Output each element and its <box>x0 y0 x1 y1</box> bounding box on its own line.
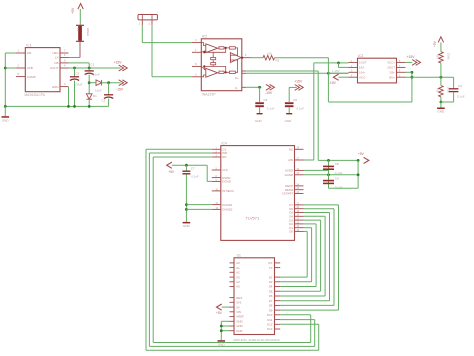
pin RG (IC2 pin 1) <box>192 51 201 53</box>
pin D4 (U1) <box>275 286 281 288</box>
pin GND (U1) <box>230 320 235 322</box>
wire D1 anode <box>89 82 96 84</box>
wire U+ to +5V drop <box>246 70 318 72</box>
pin TX (U1) <box>275 267 281 269</box>
connector X1 (input) <box>138 15 157 20</box>
svg-text:VCC-: VCC- <box>359 75 366 79</box>
junction C6 top <box>258 86 261 89</box>
svg-text:GND: GND <box>437 110 445 114</box>
wire X1-1 to INA +IN <box>142 42 192 44</box>
pin D13 (U1) <box>275 328 281 330</box>
junction C1 top <box>88 67 91 70</box>
svg-text:R3: R3 <box>276 59 280 63</box>
svg-text:AREF: AREF <box>236 315 244 319</box>
junction AGND right <box>357 173 360 176</box>
wire +5V drop from IC2 U+ <box>317 71 319 160</box>
wire C4 to gnd node <box>441 101 454 103</box>
pin UOUT (IC1 pin 4) <box>60 67 69 69</box>
svg-text:GND: GND <box>52 85 60 89</box>
svg-text:C7: C7 <box>191 166 195 170</box>
wire RD vertical <box>152 157 154 343</box>
svg-text:INA129P: INA129P <box>202 93 216 97</box>
svg-text:100k: 100k <box>447 53 451 60</box>
svg-text:LX: LX <box>55 56 59 60</box>
pin VCC- (IC3) <box>349 76 358 78</box>
svg-text:D8: D8 <box>269 304 273 308</box>
svg-text:1IN+: 1IN+ <box>359 71 365 75</box>
wire CS <box>146 148 212 150</box>
svg-text:0.1uF: 0.1uF <box>335 186 343 190</box>
wire +5V to R1 <box>440 42 442 51</box>
ground GND (Arduino) <box>218 340 226 342</box>
pin VCC+ (IC3) <box>397 61 406 63</box>
wire D2 horizontal <box>304 223 317 225</box>
pin D6 (U1) <box>275 295 281 297</box>
wire node A bottom run <box>328 101 412 103</box>
wire D6 horizontal <box>304 208 335 210</box>
pin D10 (U1) <box>275 314 281 316</box>
pin AVDD (IC4) <box>295 169 304 171</box>
pin D11 (U1) <box>275 319 281 321</box>
wire RD <box>153 156 212 158</box>
op-amp IC2 input buffer A <box>206 44 218 53</box>
pin 2IN+ (IC3) <box>397 76 406 78</box>
svg-text:IC2: IC2 <box>202 35 207 39</box>
svg-text:C3: C3 <box>76 72 80 76</box>
wire C1 top lead <box>88 68 90 71</box>
svg-text:+5V: +5V <box>358 152 365 156</box>
wire mid to R2 <box>440 77 442 85</box>
supply -15V arrow (IC3 VCC-) <box>333 74 338 80</box>
pin CS (IC4) <box>212 148 221 150</box>
wire WR <box>149 152 211 154</box>
wire L1 to LX <box>79 42 81 58</box>
wire D4 to Arduino <box>280 295 325 297</box>
svg-text:LBO: LBO <box>52 51 59 55</box>
wire +5V line at ADC <box>318 159 358 161</box>
pin NC (IC4) <box>295 148 304 150</box>
wire control bus vert x=318.7 <box>318 324 320 350</box>
wire GND1 <box>221 320 229 322</box>
svg-text:A4: A4 <box>236 280 240 284</box>
junction node A / divider line <box>411 76 414 79</box>
junction 2IN- <box>411 71 414 74</box>
wire C7 bottom to GND <box>185 174 187 222</box>
wire D1 vertical <box>311 228 313 282</box>
svg-text:D4: D4 <box>269 285 273 289</box>
svg-text:D9: D9 <box>269 308 273 312</box>
svg-text:+15V: +15V <box>294 79 303 83</box>
capacitor C2 <box>104 94 113 96</box>
wire control bus bottom y=350.3 <box>146 349 319 351</box>
wire control bus vert x=310.7 <box>310 315 312 343</box>
svg-text:DGND1: DGND1 <box>222 203 233 207</box>
svg-text:D1: D1 <box>93 94 97 98</box>
wire C2 bottom lead <box>108 99 110 107</box>
pin GND (U1) <box>230 325 235 327</box>
wire GND vertical <box>220 321 222 340</box>
wire D6 vertical <box>333 209 335 306</box>
capacitor C7 0.1uF <box>182 170 190 172</box>
svg-text:TX: TX <box>269 266 273 270</box>
svg-text:A1: A1 <box>236 266 240 270</box>
pin UFB (IC1 pin 2) <box>16 67 25 69</box>
svg-text:C8: C8 <box>335 162 339 166</box>
pin WR (IC4) <box>212 152 221 154</box>
wire 1IN- feedback <box>339 66 349 68</box>
svg-text:IC3: IC3 <box>358 54 363 58</box>
wire D2 to Arduino <box>280 286 316 288</box>
pin D7 (IC4) <box>295 204 304 206</box>
wire OUT to R3 <box>251 57 264 59</box>
inductor L1 <box>76 24 84 26</box>
svg-text:CLK: CLK <box>222 168 228 172</box>
pin CLK (IC4) <box>212 169 221 171</box>
wire C5 to GND <box>288 107 290 113</box>
pin D3 (IC4) <box>295 219 304 221</box>
wire node A vertical <box>327 58 329 102</box>
supply -15V arrow (at IC2) <box>270 84 275 90</box>
pin DGND (IC4) <box>212 180 221 182</box>
pin D0 (IC4) <box>295 230 304 232</box>
wire C6 to GND <box>259 107 261 113</box>
wire +5V drop to DVDD <box>206 165 208 181</box>
wire D7 to Arduino <box>280 309 338 311</box>
capacitor C1 <box>85 70 94 72</box>
svg-text:+5V: +5V <box>433 40 437 47</box>
svg-text:A0: A0 <box>236 261 240 265</box>
pin INT/EOC (IC4) <box>212 190 221 192</box>
wire R1 to mid <box>440 63 442 77</box>
supply +15V arrow (IC3) <box>416 60 421 66</box>
resistor IC2 internal R (bottom feedback) <box>219 71 224 73</box>
junction GND3 <box>220 329 223 332</box>
junction LBI/UFB <box>4 67 7 70</box>
wire D5 to Arduino <box>280 300 329 302</box>
svg-text:1IN-: 1IN- <box>359 66 364 70</box>
pin AREF (U1) <box>230 316 235 318</box>
svg-text:1OUT: 1OUT <box>359 61 367 65</box>
pin DGND2 (IC4) <box>212 208 221 210</box>
supply +5V arrow (ADC) <box>167 162 172 168</box>
pin A1 (U1) <box>230 267 235 269</box>
junction C3 top <box>73 67 76 70</box>
pin D5 (IC4) <box>295 212 304 214</box>
wire +5V line <box>172 164 207 166</box>
pin D2 (IC4) <box>295 223 304 225</box>
junction divider mid <box>440 76 443 79</box>
supply -15V arrow <box>122 80 127 86</box>
svg-text:2OUT: 2OUT <box>387 66 395 70</box>
pin CB (IC1 pin 5) <box>60 62 69 64</box>
pin D7 (U1) <box>275 300 281 302</box>
svg-text:A5: A5 <box>236 285 240 289</box>
junction C8 top <box>327 159 330 162</box>
pin OUT (IC2 pin 6) <box>242 57 251 59</box>
pin 3V3 (U1) <box>230 301 235 303</box>
ground GND (power section) <box>2 116 10 118</box>
svg-text:+5V: +5V <box>216 311 223 315</box>
pin RES (U1) <box>230 297 235 299</box>
svg-text:D6: D6 <box>269 294 273 298</box>
svg-text:AVDD: AVDD <box>285 169 293 173</box>
ground GND (C6) <box>257 113 263 114</box>
pin 5V (U1) <box>230 306 235 308</box>
junction node A at REF line <box>327 72 330 75</box>
pin LBO (IC1 pin 7) <box>60 52 69 54</box>
wire D0 vertical <box>306 231 308 277</box>
wire VCC+ to +15V <box>406 61 413 63</box>
IC IC4 TLV571 ADC <box>221 146 295 241</box>
wire cap chain vertical <box>328 160 330 188</box>
pin D12 (U1) <box>275 323 281 325</box>
svg-text:IC1: IC1 <box>26 44 31 48</box>
capacitor C4 <box>449 88 459 90</box>
pin 1OUT (IC3) <box>349 61 358 63</box>
junction DGND2 <box>185 208 188 211</box>
wire D2 to rail <box>88 99 90 106</box>
svg-text:IC4: IC4 <box>222 141 227 145</box>
svg-text:100k: 100k <box>447 87 451 94</box>
wire GND2 <box>221 325 229 327</box>
IC IC1 MAX636 <box>25 48 60 92</box>
svg-text:CSTART: CSTART <box>282 192 294 196</box>
ground GND (divider) <box>437 108 445 110</box>
svg-text:D5: D5 <box>269 289 273 293</box>
pin D1 (IC4) <box>295 227 304 229</box>
resistor R3 10k <box>263 55 275 60</box>
wire D6 to Arduino <box>280 304 334 306</box>
svg-text:D3: D3 <box>269 280 273 284</box>
wire AGND <box>304 174 359 176</box>
pin RD (IC4) <box>212 156 221 158</box>
wire R3 to node A <box>275 57 329 59</box>
svg-text:D12: D12 <box>267 323 273 327</box>
wire X1-1 down <box>141 25 143 42</box>
pin AGND (IC4) <box>295 174 304 176</box>
junction feedback 1OUT <box>337 62 340 65</box>
svg-text:U1: U1 <box>237 254 241 258</box>
svg-text:RX: RX <box>268 261 272 265</box>
svg-text:10uF: 10uF <box>93 73 100 77</box>
wire D3 vertical <box>320 220 322 291</box>
pin 2IN- (IC3) <box>397 71 406 73</box>
wire D5 horizontal <box>304 212 330 214</box>
svg-text:CB: CB <box>54 61 58 65</box>
wire VCC- stub <box>339 76 349 78</box>
resistor R2 100k <box>439 86 444 97</box>
pin LX (IC1 pin 6) <box>60 57 69 59</box>
pin D4 (IC4) <box>295 215 304 217</box>
supply +5V arrow (Arduino) <box>217 304 222 310</box>
supply +5V arrow (top left) <box>78 4 83 10</box>
pin CSTART (IC4) <box>295 193 304 195</box>
capacitor C9 0.1uF <box>323 180 334 182</box>
pin A2 (U1) <box>230 271 235 273</box>
pin 2OUT (IC3) <box>397 66 406 68</box>
wire to +15V arrow <box>289 86 297 88</box>
svg-text:10k: 10k <box>267 52 272 56</box>
junction R2/C4 bottom <box>440 101 443 104</box>
wire 2IN- to node A <box>406 71 412 73</box>
wire X1-2 to INA -IN <box>152 76 192 78</box>
junction right cap rail <box>357 159 360 162</box>
junction C8/C9 mid <box>327 173 330 176</box>
wire C5 top lead <box>288 87 290 102</box>
svg-text:100uH: 100uH <box>86 28 90 37</box>
supply +5V arrow (divider) <box>438 37 443 43</box>
wire R2 to gnd node <box>440 97 442 102</box>
svg-text:2IN+: 2IN+ <box>389 75 395 79</box>
svg-text:C6: C6 <box>264 98 268 102</box>
svg-text:R2: R2 <box>436 89 440 93</box>
wire REF to node A / 1IN+ <box>246 72 348 74</box>
pin REFP (IC4) <box>295 185 304 187</box>
svg-text:TLV571: TLV571 <box>246 215 260 220</box>
wire D2 vertical <box>315 224 317 287</box>
svg-text:DGND: DGND <box>222 180 231 184</box>
svg-text:UOUT: UOUT <box>50 66 59 70</box>
wire U- to -15V <box>246 86 261 88</box>
svg-text:DGND2: DGND2 <box>222 208 233 212</box>
svg-text:VIN: VIN <box>236 310 241 314</box>
pin D3 (U1) <box>275 281 281 283</box>
wire to GND <box>440 102 442 108</box>
svg-text:GND: GND <box>236 329 242 333</box>
wire D0 to Arduino <box>280 276 307 278</box>
svg-text:GND: GND <box>183 224 191 228</box>
pin AIN (IC4) <box>295 159 304 161</box>
wire +5V to L1 <box>79 9 81 25</box>
pin U- (IC2 pin 4) <box>242 86 247 88</box>
junction C7 top <box>185 164 188 167</box>
wire AVDD <box>304 169 329 171</box>
wire IC1 GND down <box>68 87 70 107</box>
wire control bus vert x=314.7 <box>314 320 316 347</box>
svg-text:10uF: 10uF <box>95 89 102 93</box>
svg-text:D0: D0 <box>289 230 293 234</box>
pin RG (IC2 pin 8) <box>192 65 201 67</box>
pin D2 (U1) <box>275 276 281 278</box>
resistor R1 100k <box>439 52 444 63</box>
wire D0 horizontal <box>304 230 308 232</box>
wire control bus bottom y=342.5 <box>153 342 311 344</box>
svg-text:U+: U+ <box>235 76 239 80</box>
wire cap rail right <box>357 160 359 188</box>
svg-text:A3: A3 <box>236 275 240 279</box>
pin 1IN- (IC3) <box>349 66 358 68</box>
wire D7 horizontal <box>304 204 339 206</box>
pin GND (U1) <box>230 330 235 332</box>
svg-text:C2: C2 <box>102 99 106 103</box>
wire LBI left <box>5 52 16 54</box>
wire IC2 internal <box>201 43 237 77</box>
svg-text:INT/EOC: INT/EOC <box>222 189 234 193</box>
wire C3 top lead <box>74 68 76 77</box>
wire UOUT to +15V <box>69 67 121 69</box>
junction D1 anode <box>88 81 91 84</box>
wire D7 vertical <box>338 205 340 310</box>
pin COMP (IC1 pin 8) <box>16 76 25 78</box>
wire node B (1OUT) <box>314 62 349 64</box>
svg-text:UFB: UFB <box>27 66 33 70</box>
svg-text:0.1uF: 0.1uF <box>267 106 275 110</box>
svg-text:NC: NC <box>289 148 293 152</box>
pin A3 (U1) <box>230 276 235 278</box>
svg-text:D2: D2 <box>269 275 273 279</box>
svg-text:D13: D13 <box>267 327 273 331</box>
pin A5 (U1) <box>230 286 235 288</box>
junction GND2 <box>220 325 223 328</box>
resistor IC2 internal R (top feedback) <box>219 47 224 49</box>
svg-text:GND: GND <box>285 119 293 123</box>
wire WR vertical <box>148 153 150 346</box>
wire C4 top lead <box>453 77 455 88</box>
wire left rail vertical <box>4 53 6 106</box>
wire C4 bottom lead <box>453 92 455 102</box>
junction DGND1 <box>185 203 188 206</box>
svg-text:R1: R1 <box>436 55 440 59</box>
svg-text:+5V: +5V <box>168 170 175 174</box>
junction D2 bottom <box>88 105 91 108</box>
svg-text:RES: RES <box>236 296 242 300</box>
capacitor C5 0.1uF <box>285 102 294 104</box>
svg-text:-15V: -15V <box>116 88 124 92</box>
pin D8 (U1) <box>275 304 281 306</box>
wire control bus row y=319.6 <box>280 319 315 321</box>
IC IC2 INA129 <box>201 39 242 91</box>
wire D1 to Arduino <box>280 281 311 283</box>
svg-text:+15V: +15V <box>114 60 123 64</box>
junction C2 top <box>107 81 110 84</box>
svg-text:0.1uF: 0.1uF <box>191 174 199 178</box>
svg-text:C5: C5 <box>293 98 297 102</box>
ground GND (ADC) <box>183 222 191 224</box>
wire X1-2 down <box>151 25 153 77</box>
wire D1 cathode to -15V <box>102 82 121 84</box>
wire C6 top lead <box>259 87 261 102</box>
svg-text:5V: 5V <box>236 305 240 309</box>
diode D1 <box>96 80 102 86</box>
wire DGND2 <box>186 208 211 210</box>
svg-text:C4: C4 <box>458 84 462 88</box>
IC IC3 TL072 power <box>358 58 397 83</box>
svg-text:D11: D11 <box>267 318 272 322</box>
svg-text:D10: D10 <box>267 313 273 317</box>
supply +5V arrow (ADC right) <box>364 157 369 163</box>
resistor IC2 internal RG pair <box>211 58 216 60</box>
op-amp IC2 output stage <box>230 53 241 63</box>
svg-text:RD: RD <box>222 155 226 159</box>
wire C2 top lead <box>108 83 110 95</box>
pin DGND1 (IC4) <box>212 204 221 206</box>
wire CS vertical <box>145 149 147 350</box>
wire CB net <box>69 62 90 64</box>
svg-text:AGND: AGND <box>285 173 293 177</box>
pin 1IN+ (IC3) <box>349 71 358 73</box>
pin VIN (U1) <box>230 311 235 313</box>
junction rail left <box>4 105 7 108</box>
svg-text:100uF: 100uF <box>74 83 83 87</box>
svg-text:3V3: 3V3 <box>236 301 242 305</box>
svg-text:1.15V: 1.15V <box>332 69 340 73</box>
wire GND3 <box>221 330 229 332</box>
pin REFM (IC4) <box>295 189 304 191</box>
pin RX (U1) <box>275 262 281 264</box>
wire control bus row y=314.8 <box>280 314 311 316</box>
junction C3 bottom <box>73 105 76 108</box>
wire cap rail bottom <box>329 187 359 189</box>
